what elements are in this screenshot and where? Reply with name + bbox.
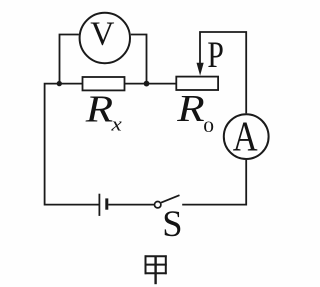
svg-text:S: S bbox=[162, 203, 182, 244]
svg-text:x: x bbox=[110, 114, 122, 135]
svg-text:R: R bbox=[176, 87, 204, 129]
svg-text:P: P bbox=[207, 35, 223, 76]
svg-text:V: V bbox=[90, 15, 114, 52]
svg-text:R: R bbox=[85, 88, 113, 130]
svg-text:A: A bbox=[233, 114, 258, 160]
svg-text:0: 0 bbox=[203, 119, 214, 137]
